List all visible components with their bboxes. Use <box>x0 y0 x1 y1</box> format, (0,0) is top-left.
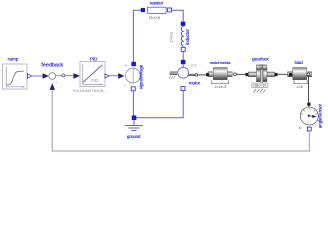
svg-text:load: load <box>295 60 304 65</box>
svg-text:ground: ground <box>127 134 141 139</box>
inductor L1 <box>168 22 190 52</box>
block PID controller <box>80 56 105 86</box>
wire load.flange_b to angleSensor.flange <box>308 76 310 103</box>
svg-text:motorInertia: motorInertia <box>210 60 232 65</box>
motor pin n (bottom) <box>181 87 185 91</box>
svg-text:J=5: J=5 <box>296 85 302 89</box>
wire signalVoltage.p to resistor.p <box>133 10 141 62</box>
wire PID.y to signalVoltage.v <box>109 75 119 77</box>
node junction at ground <box>132 116 137 121</box>
svg-text:angleSensor: angleSensor <box>318 103 323 128</box>
signalVoltage pin n (bottom) <box>131 87 135 91</box>
angleSensor pin flange (top) <box>307 102 311 106</box>
wire inductor.n to motor.p <box>182 51 184 60</box>
signalVoltage source U1 <box>124 63 143 90</box>
svg-text:J=1e-3: J=1e-3 <box>215 85 227 89</box>
resistor pin p <box>141 8 145 12</box>
svg-text:resistor: resistor <box>150 0 164 5</box>
svg-text:motor: motor <box>189 81 201 86</box>
svg-text:ramp: ramp <box>8 57 19 62</box>
svg-text:PID: PID <box>91 78 98 83</box>
feedback summing junction <box>41 63 63 90</box>
svg-text:k=1: k=1 <box>192 64 197 68</box>
load inertia J=5 <box>288 60 312 89</box>
svg-text:signalVoltage: signalVoltage <box>139 64 144 89</box>
motorInertia pin flange_a <box>206 73 210 77</box>
resistor R1 <box>148 0 167 20</box>
angleSensor <box>299 103 323 130</box>
block ramp <box>3 57 28 89</box>
motor support (left fixed) <box>169 72 177 79</box>
wire ground node to motor.n <box>134 91 183 118</box>
feedback output connector <box>56 74 65 77</box>
PID output connector <box>105 74 109 78</box>
svg-text:s: s <box>299 126 301 130</box>
motor EMF <box>178 64 201 86</box>
motorInertia J=1e-3 <box>208 60 232 89</box>
svg-text:Ti=0.1 k=100 Td=0.01 ...: Ti=0.1 k=100 Td=0.01 ... <box>73 89 108 93</box>
svg-text:feedback: feedback <box>41 63 63 69</box>
PID parameter text <box>73 89 108 93</box>
gearbox pin flange_a <box>245 73 248 76</box>
svg-text:gearbox: gearbox <box>252 57 269 62</box>
svg-text:+: + <box>125 63 128 68</box>
svg-text:R=0.5: R=0.5 <box>149 15 161 20</box>
wire ramp.y to feedback <box>32 75 43 77</box>
svg-text:PID: PID <box>90 56 97 61</box>
wire angleSensor.phi to feedback.u2 (feedback loop) <box>52 90 309 151</box>
signalVoltage input connector <box>118 73 124 79</box>
wire gearbox.flange_b to load.flange_a <box>278 73 289 75</box>
signalVoltage pin p (top) <box>131 62 136 66</box>
wire resistor.n to inductor.p <box>172 10 184 21</box>
load pin flange_b <box>307 73 310 76</box>
motorInertia pin flange_b <box>234 73 237 76</box>
svg-text:inductor: inductor <box>185 29 190 45</box>
wire motorInertia.flange_b to gearbox.flange_a <box>236 73 245 75</box>
gearbox pin flange_b <box>275 73 278 76</box>
resistor pin n <box>168 8 172 12</box>
wire feedback.y to PID.u <box>65 75 74 77</box>
wire motor.flange to motorInertia.flange_a <box>198 74 206 76</box>
gearbox support hatching <box>253 89 265 93</box>
svg-text:-: - <box>124 83 126 88</box>
gearbox ideal gear <box>248 57 274 88</box>
svg-text:L=0.1: L=0.1 <box>168 31 173 42</box>
PID input connector <box>73 73 80 79</box>
svg-text:-: - <box>56 80 58 85</box>
ground symbol <box>125 120 143 139</box>
svg-text:ratio=10: ratio=10 <box>253 84 266 88</box>
load pin flange_a <box>289 73 293 77</box>
motor shaft flange <box>188 74 197 77</box>
angleSensor output connector (bottom) <box>307 127 311 131</box>
ramp output connector <box>28 74 32 79</box>
wire signalVoltage.n to ground node <box>132 91 134 118</box>
motor pin p (top) <box>181 60 186 64</box>
